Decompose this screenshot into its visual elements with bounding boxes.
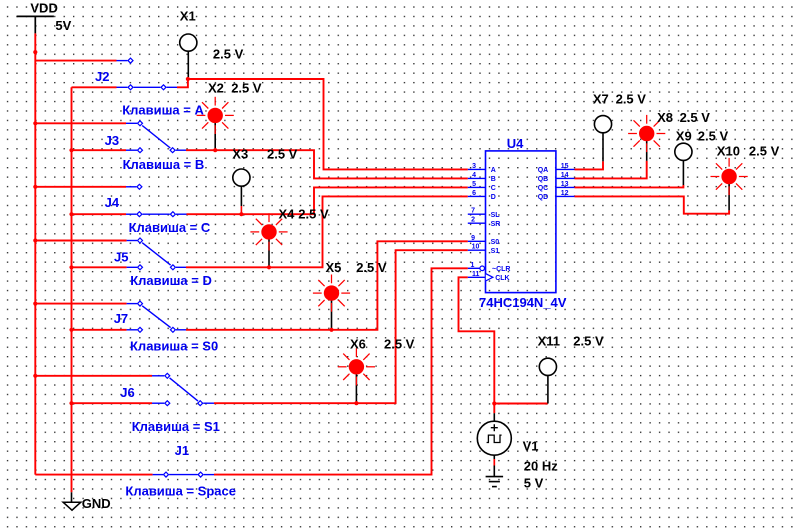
wire VDD bus corner to J1 left pin [35,474,163,476]
junction GND bus at J4 [69,212,73,216]
wire VDD to J5 upper throw [35,240,137,242]
wire GND bus to J5 left pin [72,266,138,268]
wire U4 pin 12 to X10 (node QD) [575,196,730,213]
probe X9 pin [682,161,684,186]
wire U4 pin 15 to X7 (node QA) [575,161,604,169]
label X5 [326,260,342,275]
svg-text:Клавиша = S1: Клавиша = S1 [132,419,220,434]
U4 pin number 3 [472,163,476,170]
svg-text:Клавиша = C: Клавиша = C [129,220,211,235]
U4 pin 13 stub (QC) [556,186,575,188]
probe X3 pin [240,186,242,212]
svg-text:1: 1 [470,262,474,269]
label Клавиша = S0 [130,338,218,353]
label J1 [175,443,189,458]
junction node D (X4 tap) [267,265,271,269]
svg-text:J2: J2 [95,69,109,84]
power symbol VDD [17,1,58,34]
svg-text:X5: X5 [326,260,342,275]
U4 pin number 5 [472,181,476,188]
svg-text:Клавиша = Space: Клавиша = Space [125,483,236,498]
svg-text:7: 7 [471,208,475,215]
probe X7 (off) [594,116,611,133]
junction VDD bus J7 branch [33,302,37,306]
label X10 [717,143,740,158]
svg-text:X7: X7 [593,92,609,107]
junction VDD bus J3 branch [33,121,37,125]
probe X5 (lit) [313,275,350,312]
svg-text:S1: S1 [491,248,500,255]
junction on VDD bus near J2 branch [33,50,37,54]
label X3 [232,146,248,161]
label X10 value 2.5 V [749,143,780,158]
switch J7 (up position, Клавиша = S0) [138,301,187,332]
svg-text:X2: X2 [208,80,224,95]
svg-text:5 V: 5 V [524,476,544,491]
source V1 square-wave generator [477,413,511,476]
U4 pin name S1 [491,248,500,255]
svg-text:4: 4 [472,172,476,179]
probe X9 (off) [675,143,692,160]
U4 pin name QA [538,167,549,174]
svg-text:Клавиша = А: Клавиша = А [122,102,204,117]
probe X2 (lit) [197,97,234,134]
wire J6 common to U4 pin 10 (node S1) [214,250,468,403]
svg-text:QA: QA [538,167,549,174]
wire GND bus to J6 left pin [72,402,165,404]
ground symbol at V1 [486,477,504,487]
svg-text:X9: X9 [676,128,692,143]
ground symbol GND [63,492,111,511]
svg-text:QB: QB [538,176,549,183]
label V1 amplitude 5 V [524,476,544,491]
wire GND bus to J4 left pin [72,213,137,215]
U4 pin name SL [491,212,501,219]
junction GND bus at J7 [69,328,73,332]
svg-text:2.5 V: 2.5 V [298,206,329,221]
U4 pin 4 stub (B) [468,177,486,179]
probe X8 (lit) [628,115,665,152]
label Клавиша = А [122,102,204,117]
svg-text:J4: J4 [105,195,120,210]
label X2 [208,80,224,95]
svg-text:~CLR: ~CLR [492,266,510,273]
wire U4 pin 11 to V1 (node CLK) [459,277,495,413]
U4 pin 14 stub (QB) [556,177,575,179]
U4 pin 9 stub (S0) [468,240,486,242]
svg-text:VDD: VDD [30,1,57,16]
svg-text:74HC194N_4V: 74HC194N_4V [479,295,567,310]
svg-text:5: 5 [472,181,476,188]
svg-text:QD: QD [538,194,549,201]
label Клавиша = S1 [132,419,220,434]
svg-text:2.5 V: 2.5 V [749,143,780,158]
switch J5 (up position, Клавиша = D) [138,238,187,270]
label X3 value 2.5 V [267,146,298,161]
label V1 [523,438,539,453]
U4 pin 15 stub (QA) [556,168,575,170]
U4 pin name QD [538,194,549,201]
svg-text:2.5 V: 2.5 V [356,260,387,275]
switch J6 (up position, Клавиша = S1) [165,373,214,405]
svg-text:J1: J1 [175,443,189,458]
U4 pin name ~CLR [492,266,510,273]
svg-text:U4: U4 [507,136,524,151]
U4 pin name C [491,185,496,192]
wire U4 pin 13 to X9 (node QC) [575,185,684,187]
label J3 [105,133,119,148]
svg-text:2.5 V: 2.5 V [616,92,647,107]
svg-text:A: A [491,167,496,174]
svg-text:QC: QC [538,185,549,192]
svg-text:6: 6 [472,190,476,197]
probe X10 (lit) [711,158,748,195]
svg-text:SL: SL [491,212,501,219]
wire J2 common to node A [177,79,188,87]
wire J4 common to U4 pin 5 (node C) [187,187,468,214]
switch J3 (up position, Клавиша = B) [138,121,187,153]
label X9 [676,128,692,143]
label X7 [593,92,609,107]
U4 pin 11 stub (CLK) [468,274,493,281]
U4 pin number 15 [561,163,569,170]
svg-text:12: 12 [561,190,569,197]
U4 pin 6 stub (D) [468,195,486,197]
svg-text:X11: X11 [538,333,560,348]
probe X1 pin [187,51,189,77]
label Клавиша = Space [125,483,236,498]
label X6 value 2.5 V [384,336,415,351]
label J5 [114,249,128,264]
svg-text:X3: X3 [232,146,248,161]
wire J1 common to U4 pin 1 (node CLR) [214,268,468,474]
U4 pin number 11 [472,271,480,278]
svg-text:11: 11 [472,271,480,278]
label X11 [538,333,560,348]
probe X4 pin [268,239,270,265]
probe X6 (lit) [338,348,375,385]
junction node S0 (X5 tap) [329,328,333,332]
label Клавиша = B [123,157,205,172]
label J6 [120,385,134,400]
U4 pin number 13 [561,181,569,188]
wire VDD bus vertical [34,33,36,474]
U4 pin number 1 [470,262,474,269]
junction GND bus at J6 [69,401,73,405]
wire J5 common to U4 pin 6 (node D) [186,196,468,267]
probe X4 (lit) [250,213,287,250]
label 5V for VDD [55,18,71,33]
svg-text:20 Hz: 20 Hz [524,458,558,473]
svg-text:CLK: CLK [495,275,509,282]
wire J7 common to U4 pin 9 (node S0) [186,241,468,329]
switch J1 (closed, Клавиша = Space) [164,472,215,477]
U4 pin 12 stub (QD) [556,195,575,197]
label X8 value 2.5 V [680,110,711,125]
svg-text:10: 10 [472,244,480,251]
svg-text:2.5 V: 2.5 V [384,336,415,351]
U4 pin name B [491,176,496,183]
U4 pin number 14 [561,172,569,179]
label X1 [180,8,196,23]
switch J2 (closed, Клавиша = А) [128,58,177,90]
svg-text:13: 13 [561,181,569,188]
switch J4 (closed, Клавиша = C) [137,184,187,216]
U4 pin name D [491,194,496,201]
svg-text:2: 2 [471,217,475,224]
wire GND bus to J3 left pin [72,149,138,151]
svg-text:B: B [491,176,496,183]
label X5 value 2.5 V [356,260,387,275]
label X2 value 2.5 V [231,80,262,95]
probe X8 pin [646,141,648,161]
U4 pin number 9 [471,235,475,242]
svg-text:2.5 V: 2.5 V [231,80,262,95]
wire VDD to J2 upper throw [35,60,127,62]
wire VDD to J7 upper throw [35,303,137,305]
U4 pin name QC [538,185,549,192]
wire VDD to J4 upper throw [35,186,136,188]
junction GND bus at J5 [69,265,73,269]
U4 pin number 6 [472,190,476,197]
U4 pin name A [491,167,496,174]
wire VDD to J6 upper throw [35,375,164,377]
label J7 [114,311,128,326]
svg-text:J5: J5 [114,249,128,264]
svg-text:3: 3 [472,163,476,170]
wire CLK junction to X11 [494,403,548,405]
probe X3 (off) [233,169,250,186]
svg-text:Клавиша = B: Клавиша = B [123,157,205,172]
U4 pin 1 stub (~CLR) with bubble [468,266,485,271]
svg-text:9: 9 [471,235,475,242]
svg-text:J6: J6 [120,385,134,400]
probe X6 pin [355,374,357,401]
svg-text:15: 15 [561,163,569,170]
wire GND bus vertical [71,87,73,492]
probe X7 pin [602,133,604,161]
svg-text:GND: GND [82,496,111,511]
U4 pin number 4 [472,172,476,179]
label X9 value 2.5 V [698,128,729,143]
probe X11 (off) [539,358,556,375]
U4 pin number 12 [561,190,569,197]
wire GND bus to J2 left pin [72,86,128,88]
junction node C (X3 tap) [239,212,243,216]
junction VDD bus J5 branch [33,238,37,242]
wire GND bus to J7 left pin [72,329,138,331]
U4 pin name QB [538,176,549,183]
label X6 [350,336,366,351]
wire U4 pin 14 to X8 (node QB) [575,161,647,179]
probe X10 pin [728,184,730,210]
svg-text:X1: X1 [180,8,196,23]
probe X11 pin [547,376,549,404]
label X1 value 2.5 V [213,46,244,61]
U4 pin name S0 [491,239,500,246]
label X4 [279,206,296,221]
U4 pin number 7 [471,208,475,215]
junction VDD bus J4 branch [33,185,37,189]
svg-text:C: C [491,185,496,192]
svg-text:14: 14 [561,172,569,179]
IC U4 74HC194N body [486,151,556,293]
junction VDD bus J6 branch [33,374,37,378]
svg-text:2.5 V: 2.5 V [698,128,729,143]
U4 pin 7 stub (SL) [468,213,486,215]
svg-text:X8: X8 [657,110,673,125]
svg-text:Клавиша = D: Клавиша = D [130,273,212,288]
junction node CLK (X11/V1) [492,401,496,405]
svg-text:SR: SR [491,221,501,228]
svg-text:V1: V1 [523,438,539,453]
label 74HC194N_4V [479,295,567,310]
svg-text:J7: J7 [114,311,128,326]
svg-text:2.5 V: 2.5 V [267,146,298,161]
label V1 frequency 20 Hz [524,458,558,473]
label X11 value 2.5 V [573,333,604,348]
probe X5 pin [331,301,333,329]
wire node A to U4 pin 3 [188,79,468,169]
probe X1 (off) [180,34,197,51]
svg-text:2.5 V: 2.5 V [213,46,244,61]
label J4 [105,195,120,210]
wire VDD to J3 upper throw [35,122,137,124]
U4 pin number 2 [471,217,475,224]
label X4 value 2.5 V [298,206,329,221]
wire J3 common to U4 pin 4 (node B) [186,150,468,178]
U4 pin number 10 [472,244,480,251]
svg-text:X4: X4 [279,206,296,221]
junction node S1 (X6 tap) [354,401,358,405]
junction node B (X2 tap) [213,148,217,152]
U4 pin 2 stub (SR) [468,222,486,224]
svg-text:2.5 V: 2.5 V [680,110,711,125]
U4 pin 3 stub (A) [468,168,486,170]
probe X2 pin [214,123,216,149]
label X8 [657,110,673,125]
label U4 [507,136,524,151]
junction node A (X1 tap) [186,77,190,81]
U4 pin 10 stub (S1) [468,249,486,251]
label Клавиша = C [129,220,211,235]
U4 pin name CLK [495,275,509,282]
svg-text:J3: J3 [105,133,119,148]
svg-text:D: D [491,194,496,201]
label X7 value 2.5 V [616,92,647,107]
U4 pin 5 stub (C) [468,186,486,188]
svg-text:S0: S0 [491,239,500,246]
svg-text:X10: X10 [717,143,740,158]
svg-text:5V: 5V [55,18,71,33]
junction GND bus at J3 [69,148,73,152]
label Клавиша = D [130,273,212,288]
svg-text:Клавиша = S0: Клавиша = S0 [130,338,218,353]
label J2 [95,69,109,84]
svg-text:2.5 V: 2.5 V [573,333,604,348]
svg-text:X6: X6 [350,336,366,351]
U4 pin name SR [491,221,501,228]
